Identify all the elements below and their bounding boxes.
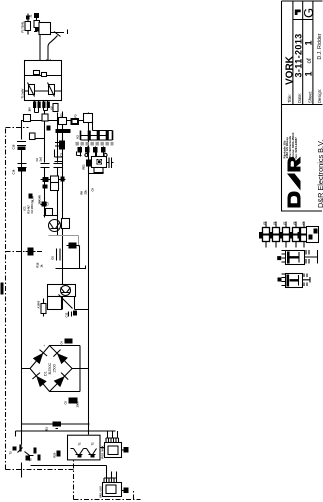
svg-text:K2: K2 [76, 135, 80, 139]
svg-text:D&R Electronics B.V.: D&R Electronics B.V. [316, 140, 323, 208]
svg-text:T1 2x9V: T1 2x9V [21, 88, 25, 98]
svg-text:R20: R20 [53, 452, 57, 457]
svg-text:2n2: 2n2 [39, 156, 43, 161]
svg-text:C12: C12 [65, 312, 69, 317]
svg-text:1k: 1k [40, 264, 44, 267]
svg-text:Sheet:: Sheet: [307, 91, 312, 103]
svg-text:R8: R8 [80, 191, 84, 195]
svg-text:1N4148: 1N4148 [38, 195, 42, 205]
svg-text:C3: C3 [60, 153, 64, 157]
svg-text:B1: B1 [45, 427, 49, 431]
svg-text:T3: T3 [9, 451, 13, 455]
svg-text:R1 4k7: R1 4k7 [27, 205, 31, 214]
svg-text:NUL-LUS: NUL-LUS [99, 486, 103, 498]
svg-text:1: 1 [303, 71, 313, 76]
svg-text:9V: 9V [28, 107, 32, 110]
svg-text:C2: C2 [35, 158, 39, 162]
svg-text:22k: 22k [84, 190, 88, 195]
svg-text:100n: 100n [76, 401, 80, 407]
svg-text:Date:: Date: [297, 93, 302, 103]
svg-text:POS. WEK: POS. WEK [101, 445, 105, 458]
svg-text:C16: C16 [12, 169, 16, 174]
svg-text:IC1: IC1 [23, 206, 27, 211]
svg-text:D1: D1 [44, 371, 48, 376]
svg-text:RE1: RE1 [82, 164, 86, 170]
svg-text:F1 T100L: F1 T100L [21, 21, 25, 33]
svg-text:1500: 1500 [53, 364, 57, 372]
svg-text:1: 1 [303, 40, 313, 45]
svg-text:A1000: A1000 [37, 300, 41, 308]
svg-text:R15: R15 [36, 262, 40, 267]
svg-text:C4: C4 [60, 341, 64, 345]
svg-text:G: G [301, 8, 316, 18]
svg-text:Title:: Title: [287, 94, 292, 103]
svg-text:C5: C5 [64, 401, 68, 405]
svg-text:of: of [306, 58, 313, 63]
svg-text:Design:: Design: [317, 89, 322, 103]
svg-text:fax: 0294-16987: fax: 0294-16987 [294, 137, 298, 159]
svg-text:D.J. Ridder: D.J. Ridder [317, 33, 323, 59]
svg-text:3-11-2013: 3-11-2013 [293, 33, 303, 77]
svg-text:F3: F3 [74, 114, 78, 118]
svg-text:C2 100n: C2 100n [30, 203, 34, 213]
svg-text:C15: C15 [12, 144, 16, 149]
svg-text:+: + [43, 345, 47, 347]
svg-text:B250C: B250C [48, 362, 52, 374]
svg-text:C9: C9 [91, 188, 95, 192]
svg-text:D2: D2 [51, 256, 55, 260]
svg-text:J1: J1 [29, 14, 33, 17]
